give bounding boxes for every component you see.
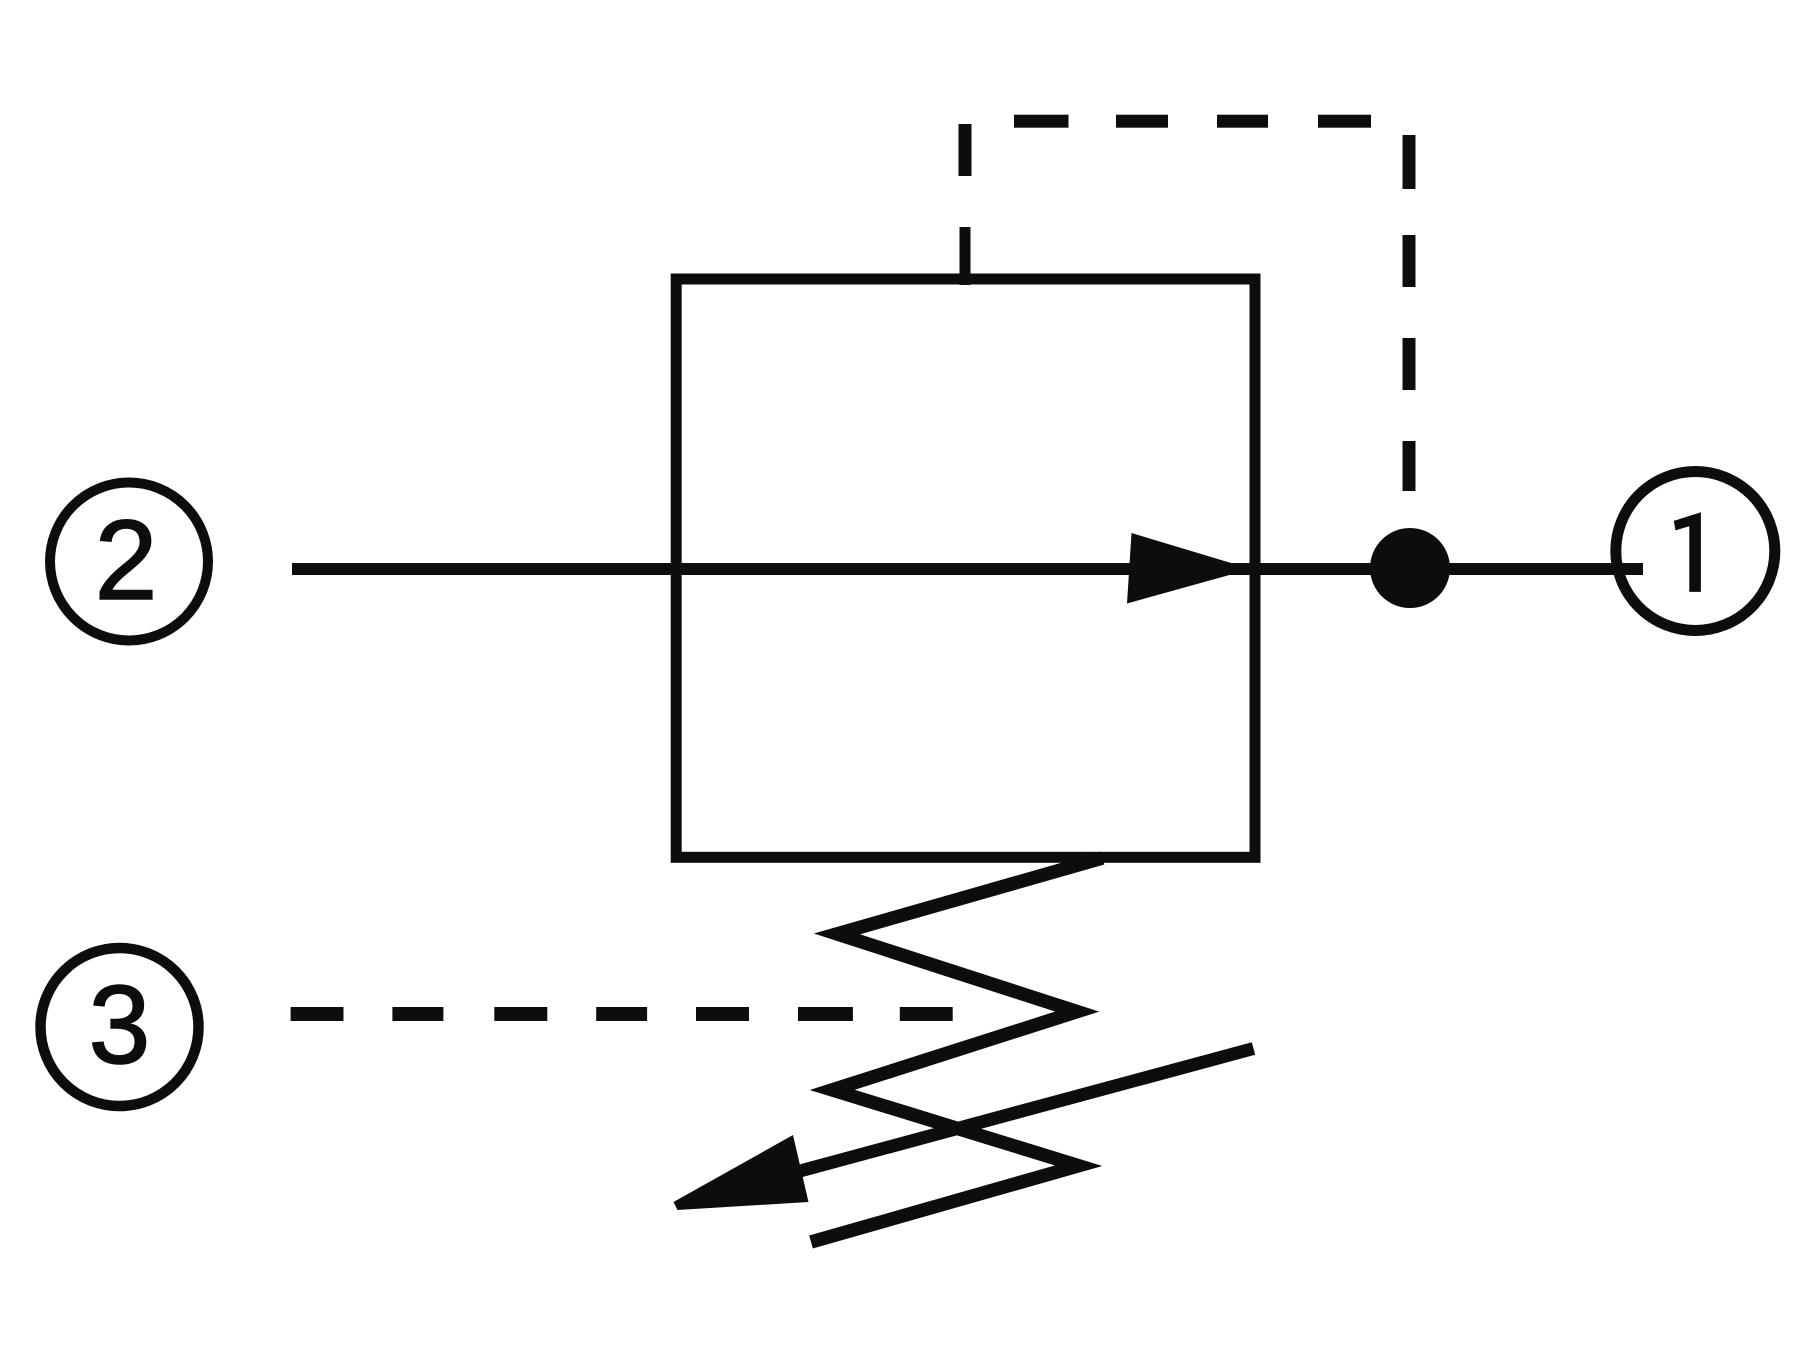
flow arrow inside valve (1127, 533, 1251, 604)
spring (zigzag) below valve box (811, 858, 1103, 1242)
port circle 1 (1616, 472, 1775, 631)
pilot dashed line: right vertical dashes down to junction (1403, 135, 1416, 491)
junction node dot (1370, 528, 1450, 608)
spring adjustment arrow head (674, 1135, 809, 1210)
port circle 3 (41, 948, 199, 1106)
pilot dashed line: vertical dash above stub (959, 124, 972, 176)
spring adjustment arrow shaft (800, 1049, 1254, 1172)
pilot dashed line: top horizontal dashes (1014, 115, 1371, 128)
pilot dashed line from port 3 to spring (291, 1007, 953, 1021)
valve body box (676, 279, 1255, 857)
wire: main line from port 2 through valve to port 1 (292, 563, 1643, 575)
pilot stub above valve box (960, 227, 971, 285)
port circle 2 (50, 483, 208, 641)
svg-text:2: 2 (95, 497, 158, 623)
svg-text:3: 3 (89, 963, 151, 1087)
